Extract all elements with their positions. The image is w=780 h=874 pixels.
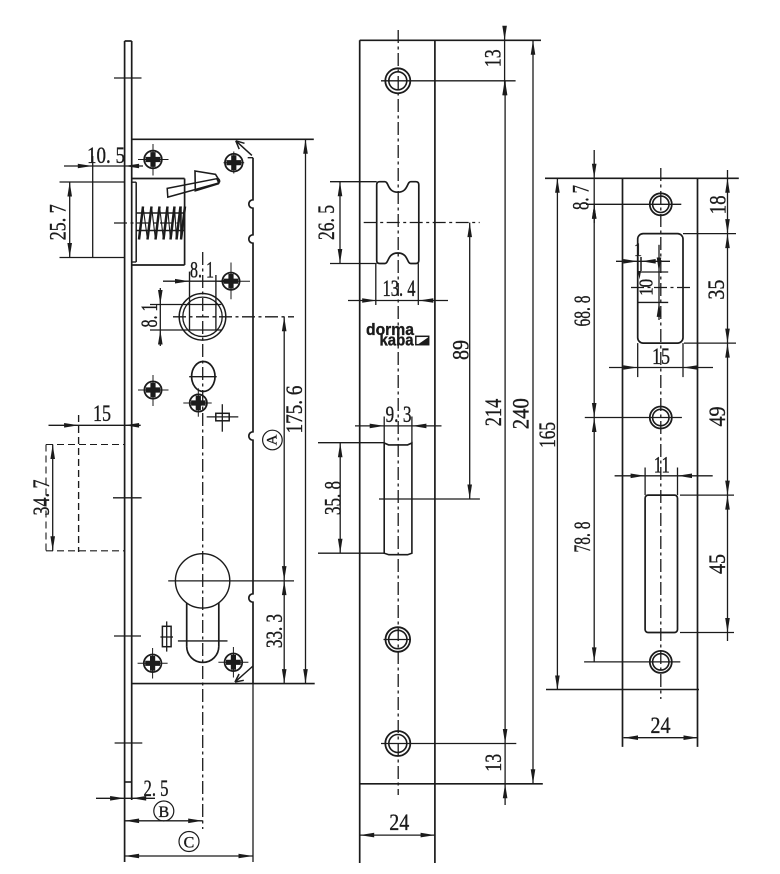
wire strike left edge <box>622 178 624 747</box>
svg-text:34. 7: 34. 7 <box>29 480 54 516</box>
wire case right edge with notches <box>249 158 253 684</box>
node cylinder centerline to A/33.3 dims <box>168 580 294 582</box>
svg-text:68. 8: 68. 8 <box>570 296 595 327</box>
wire strike right edge <box>697 178 699 747</box>
svg-text:49: 49 <box>705 407 730 427</box>
component handle follower hub <box>179 294 226 341</box>
node middle hole centerline ext <box>585 417 682 419</box>
node centerline tick y636 <box>114 635 141 637</box>
svg-text:C: C <box>184 835 195 852</box>
component bottom screw hole <box>385 731 410 756</box>
wire faceplate bottom edge + ext <box>360 783 543 785</box>
node oval crosshair <box>189 376 217 378</box>
wire spring guide bottom line <box>137 230 185 232</box>
wire hidden line x78.6 / 15-dim reference <box>78 415 80 552</box>
node top hole centerline ext to 8.7/68.8 dims <box>586 203 681 205</box>
wire ext y233.6 <box>683 233 736 235</box>
node follower centerline to A dim <box>173 316 294 318</box>
wire follower square right + extension up <box>215 275 217 330</box>
node faceplate vertical centerline <box>397 30 399 795</box>
svg-text:26. 5: 26. 5 <box>314 205 339 240</box>
svg-text:165: 165 <box>535 422 560 448</box>
node latch centerline y223 <box>114 222 185 224</box>
component screw S1 <box>152 144 154 176</box>
wire follower square bottom + 8.1 extension <box>150 329 221 331</box>
component set-screw symbol <box>162 626 171 646</box>
node lock vertical centerline <box>202 252 204 829</box>
wire follower square top + 8.1 extension <box>150 304 221 306</box>
node latch opening centerline <box>631 287 691 289</box>
component top screw hole <box>385 68 410 93</box>
wire faceplate bottom cap <box>125 781 132 783</box>
component strike top hole <box>650 193 672 215</box>
svg-text:9. 3: 9. 3 <box>386 402 412 427</box>
wire strike bottom edge + extensions <box>546 689 699 691</box>
node latch cutout centerline + ext to 89 dim <box>364 222 480 224</box>
component oval spring-catch hole <box>192 362 215 392</box>
svg-text:25. 7: 25. 7 <box>46 204 71 240</box>
svg-text:A: A <box>264 434 280 445</box>
svg-text:240: 240 <box>509 398 534 429</box>
svg-text:1: 1 <box>634 240 642 261</box>
component strike tongue (1mm lip) <box>637 257 639 271</box>
wire case right edge extension down for C <box>252 684 254 862</box>
component screw S6 <box>232 647 234 678</box>
wire faceplate right edge <box>131 41 133 800</box>
component latch-bolt housing <box>132 178 185 180</box>
node centerline tick y78 <box>114 77 142 79</box>
component screw S3 <box>152 375 154 406</box>
component strike middle hole <box>650 407 672 429</box>
component latch opening (rounded rect) <box>638 234 683 344</box>
wire right-side shared dim line <box>727 170 729 641</box>
component euro-profile cylinder hole <box>175 554 229 608</box>
component screw S7 top-right <box>233 152 235 174</box>
svg-text:8. 1: 8. 1 <box>137 304 162 328</box>
wire ext 9.3 right <box>411 417 413 444</box>
svg-text:24: 24 <box>651 713 671 738</box>
svg-text:B: B <box>158 804 169 821</box>
wire spring retainer plate <box>180 206 182 237</box>
wire faceplate right edge <box>434 40 436 863</box>
svg-text:8. 7: 8. 7 <box>569 185 594 210</box>
svg-text:214: 214 <box>481 398 506 426</box>
wire bottom-right corner diagonal mark <box>235 666 253 682</box>
node bottom hole centerline ext <box>584 661 680 663</box>
component screw S5 <box>152 648 154 679</box>
component screw S2 <box>230 263 232 300</box>
node strike vertical centerline <box>660 168 662 699</box>
node centerline tick y743 <box>115 742 143 744</box>
wire ext y495.1 <box>680 494 734 496</box>
svg-text:2. 5: 2. 5 <box>144 776 169 801</box>
svg-text:35. 8: 35. 8 <box>321 481 346 515</box>
component strike bottom hole <box>650 651 672 673</box>
wire faceplate left edge / extension for B,C dims <box>124 41 126 862</box>
svg-text:35: 35 <box>704 280 729 300</box>
dimension B (circled) <box>154 801 174 821</box>
component hidden escutcheon (dashed) <box>46 444 125 446</box>
wire case top edge + 175.6 extension <box>132 138 314 140</box>
wire spring guide top line <box>137 212 185 214</box>
node top diagonal arrowhead <box>236 141 239 149</box>
node bottom diagonal arrowhead <box>235 680 244 682</box>
component latch actuator rod <box>167 179 219 197</box>
wire ext line y499 (hub cover center) <box>379 498 480 500</box>
component latch cutout <box>377 182 419 264</box>
wire faceplate top cap <box>125 40 132 42</box>
wire tongue line y302.4 <box>638 301 668 303</box>
wire top-right corner diagonal mark <box>236 141 252 156</box>
svg-text:kaba: kaba <box>380 332 415 350</box>
svg-text:24: 24 <box>389 810 409 835</box>
node centerline tick y498 <box>113 497 142 499</box>
component adjuster square <box>216 413 229 421</box>
svg-text:78. 8: 78. 8 <box>570 522 595 553</box>
svg-text:45: 45 <box>705 554 730 574</box>
component middle screw hole <box>386 627 411 652</box>
component latch spring <box>139 207 143 240</box>
dimension C (circled) <box>179 832 199 852</box>
wire ext y343.1 <box>684 342 736 344</box>
wire edge step <box>248 157 253 159</box>
svg-text:11: 11 <box>654 453 670 478</box>
dimension A (circled) <box>283 317 285 581</box>
svg-text:15: 15 <box>93 401 111 426</box>
svg-text:13: 13 <box>481 49 506 67</box>
svg-text:33. 3: 33. 3 <box>262 614 287 648</box>
svg-text:13: 13 <box>481 754 506 772</box>
svg-text:15: 15 <box>652 344 670 369</box>
wire follower square left + extension up <box>189 272 191 330</box>
wire faceplate left edge <box>359 40 361 863</box>
component deadbolt opening (rounded rect) <box>645 495 677 632</box>
wire case bottom edge + extension <box>132 683 315 685</box>
svg-text:10: 10 <box>636 279 658 296</box>
wire strike top edge + extensions <box>545 177 739 179</box>
wire tongue line y272 <box>639 271 668 273</box>
wire cylinder slot chord <box>178 640 228 642</box>
svg-text:175. 6: 175. 6 <box>282 386 307 434</box>
component lower cutout 9.3x35.8 <box>384 443 412 555</box>
svg-text:8. 1: 8. 1 <box>190 258 214 283</box>
wire ext 9.3 left <box>383 417 385 444</box>
wire faceplate top edge + ext for 13/240 <box>360 39 541 41</box>
svg-text:13. 4: 13. 4 <box>383 276 416 301</box>
node bottom hole centerline ext to 13/214 dims <box>381 743 516 745</box>
wire ext y632.5 <box>680 632 734 634</box>
node top hole centerline ext to 13/214 dims <box>381 80 516 82</box>
component latch bolt head (wedge) <box>195 171 219 191</box>
component screw S4 <box>197 388 199 416</box>
